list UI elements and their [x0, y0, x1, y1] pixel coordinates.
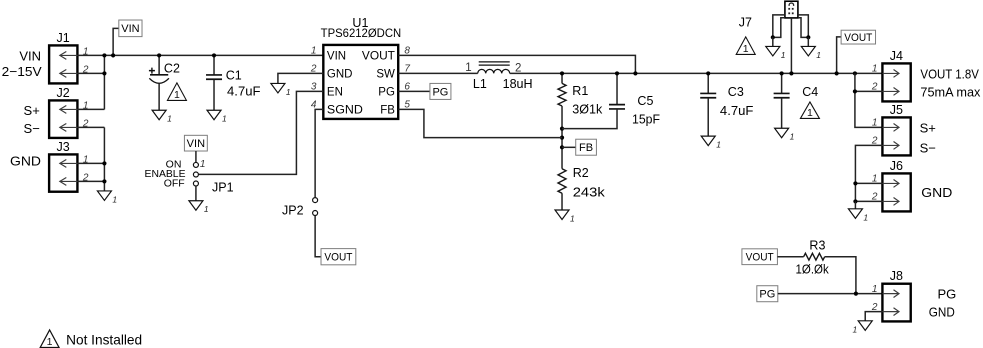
svg-text:243k: 243k	[573, 186, 606, 200]
ground R2	[555, 210, 575, 224]
svg-text:1: 1	[47, 336, 53, 348]
svg-text:1: 1	[112, 194, 117, 204]
wire R1 top lead	[561, 73, 563, 83]
svg-text:VOUT 1.8V: VOUT 1.8V	[920, 67, 979, 81]
ground C4	[775, 128, 795, 142]
junction FB label / FB node	[560, 145, 564, 149]
svg-text:1: 1	[872, 63, 878, 74]
capacitor plates C5	[609, 105, 625, 109]
junction FB wire / FB node	[560, 136, 564, 140]
svg-text:1: 1	[743, 43, 749, 55]
ground input GND bus	[97, 191, 117, 205]
junction VIN bus / rail	[102, 53, 106, 57]
connector J3	[49, 154, 77, 191]
wire J1 pin2 to VIN bus	[77, 72, 104, 74]
wire J7 right inner leg	[798, 18, 808, 38]
svg-text:FB: FB	[579, 142, 593, 154]
svg-text:1: 1	[570, 214, 575, 224]
svg-text:S−: S−	[24, 121, 40, 136]
svg-text:PG: PG	[432, 86, 448, 98]
svg-text:S+: S+	[24, 103, 40, 118]
junction VIN bus / J1 pin2	[102, 71, 106, 75]
wire J7 left outer leg	[773, 15, 785, 37]
junction R1 bottom / C5 bottom	[560, 127, 564, 131]
svg-text:1: 1	[204, 204, 209, 214]
svg-text:C1: C1	[226, 68, 242, 82]
svg-text:L1: L1	[473, 77, 487, 91]
svg-text:1: 1	[852, 324, 857, 334]
wire C3 top lead	[707, 73, 709, 93]
svg-text:VOUT: VOUT	[746, 252, 774, 264]
not-installed flag J7	[736, 37, 755, 55]
wire S- to GND bus	[855, 145, 882, 201]
wire FB node vertical	[561, 106, 563, 169]
junction C1 / VIN rail	[212, 53, 216, 57]
wire SGND to JP2	[315, 109, 323, 197]
ground C1	[207, 110, 227, 124]
svg-text:EN: EN	[327, 86, 343, 98]
svg-text:1: 1	[816, 50, 821, 60]
svg-text:FB: FB	[380, 104, 395, 116]
svg-text:1: 1	[872, 117, 878, 128]
net label VOUT at R3	[742, 249, 778, 265]
jumper JP2	[313, 198, 318, 216]
inductor L1	[478, 62, 510, 74]
wire U1 VOUT pin8 net	[398, 55, 635, 73]
wire U1 GND pin to ground	[278, 73, 323, 83]
wire EN net U1 to JP1	[199, 91, 324, 174]
svg-text:J1: J1	[57, 31, 70, 45]
wire output GND lead	[854, 201, 856, 208]
svg-text:3Ø1k: 3Ø1k	[572, 103, 603, 117]
svg-text:GND: GND	[327, 68, 353, 80]
resistor body R3	[804, 253, 825, 260]
capacitor plates C1	[206, 75, 222, 79]
svg-text:1: 1	[465, 62, 471, 74]
svg-text:GND: GND	[929, 305, 955, 320]
svg-text:JP1: JP1	[212, 180, 234, 194]
resistor body R2	[558, 169, 566, 194]
junction C5 / rail	[615, 71, 619, 75]
op-amp U1 TPS62120DCN body	[323, 45, 398, 119]
junction GND bus / J6 pin1	[853, 181, 857, 185]
not-installed flag C4	[800, 102, 819, 119]
wire VIN label to JP1 pin1	[195, 151, 197, 162]
svg-text:S+: S+	[920, 121, 936, 136]
resistor body R1	[558, 83, 566, 106]
svg-text:VOUT: VOUT	[844, 32, 872, 44]
junction VIN label stub / rail	[111, 53, 115, 57]
wire R2 bottom lead	[561, 193, 563, 210]
svg-text:C3: C3	[728, 85, 744, 99]
wire FB net U1 pin5 to divider	[398, 109, 562, 137]
connector J2	[49, 100, 77, 138]
ground J7 left	[766, 46, 786, 60]
svg-text:1: 1	[286, 87, 291, 97]
wire J7 left ground lead	[772, 37, 774, 46]
junction J7 right legs join	[806, 35, 810, 39]
wire J2 pin1 to VIN bus	[77, 108, 104, 110]
junction C2 / VIN rail	[157, 53, 161, 57]
net label FB	[576, 139, 597, 155]
junction J4 bus / pin2	[853, 89, 857, 93]
svg-text:JP2: JP2	[282, 203, 304, 217]
connector J8	[882, 284, 910, 322]
capacitor C2	[149, 55, 169, 110]
net label VIN top-left	[119, 20, 142, 37]
connector J1	[49, 45, 77, 83]
wire PG stub at U1	[398, 90, 430, 92]
svg-text:J4: J4	[890, 49, 903, 63]
junction C4 / rail	[780, 71, 784, 75]
junction GND bus / J3 pin2	[102, 179, 106, 183]
svg-text:4.7uF: 4.7uF	[720, 104, 754, 118]
ground JP1 OFF	[189, 201, 209, 215]
capacitor plates C3	[700, 93, 716, 97]
wire PG label to J8 pin1	[778, 293, 883, 295]
svg-text:GND: GND	[921, 185, 952, 200]
wire J6 pin2 wire	[855, 200, 882, 202]
junction GND bus / J6 pin2	[853, 199, 857, 203]
ground output GND	[848, 209, 868, 223]
svg-text:1: 1	[174, 89, 180, 101]
svg-text:TPS6212ØDCN: TPS6212ØDCN	[321, 26, 402, 40]
svg-text:1: 1	[311, 45, 317, 56]
svg-text:18uH: 18uH	[503, 77, 533, 91]
wire C4 top lead	[781, 73, 783, 93]
ground J7 right	[801, 46, 821, 60]
svg-text:J2: J2	[57, 86, 70, 100]
connector J4	[882, 63, 910, 101]
svg-text:VIN: VIN	[19, 49, 41, 64]
wire J4 pin2 wire	[855, 90, 883, 92]
svg-text:1: 1	[167, 114, 172, 124]
capacitor plates C4	[774, 93, 790, 97]
connector J6	[882, 173, 910, 211]
svg-text:1: 1	[790, 132, 795, 142]
net label PG at U1	[430, 83, 451, 99]
svg-text:C2: C2	[164, 62, 180, 76]
wire J7 center to rail	[790, 18, 792, 74]
svg-text:C5: C5	[637, 94, 653, 108]
svg-text:1: 1	[807, 107, 813, 119]
wire VOUT label to R3	[777, 256, 803, 258]
junction R1 / rail	[560, 71, 564, 75]
wire J6 pin1 wire	[855, 182, 882, 184]
wire C4 bottom lead	[781, 98, 783, 128]
capacitor C1	[213, 55, 215, 110]
wire FB label stub	[562, 146, 576, 148]
junction J7 left legs join	[771, 35, 775, 39]
junction J7 center / rail	[789, 71, 793, 75]
svg-text:VIN: VIN	[187, 138, 205, 150]
svg-text:1Ø.Øk: 1Ø.Øk	[796, 263, 830, 277]
ground U1 GND pin	[271, 83, 291, 97]
svg-text:R1: R1	[572, 84, 588, 98]
junction J4 bus / rail	[853, 71, 857, 75]
wire VOUT label stub	[837, 37, 842, 74]
net label VIN at JP1	[184, 135, 207, 151]
svg-text:1: 1	[222, 114, 227, 124]
wire JP1 pin3 to ground	[195, 186, 197, 201]
svg-text:J3: J3	[57, 140, 70, 154]
wire R3 to J8 pin1	[825, 257, 856, 294]
svg-text:J7: J7	[739, 16, 752, 30]
svg-text:2: 2	[515, 62, 521, 74]
net label VOUT at JP2	[321, 249, 356, 265]
jumper JP1	[193, 162, 198, 186]
ground C2	[152, 110, 172, 124]
svg-text:2−15V: 2−15V	[2, 64, 42, 79]
wire J4 sense bus	[855, 73, 883, 127]
svg-text:PG: PG	[759, 289, 775, 301]
junction pin8 drop / rail	[633, 71, 637, 75]
svg-text:VOUT: VOUT	[324, 252, 352, 264]
svg-text:VIN: VIN	[327, 50, 346, 62]
svg-text:1: 1	[863, 212, 868, 222]
wire VIN label stub	[113, 28, 119, 55]
svg-text:SGND: SGND	[327, 104, 363, 116]
svg-text:S−: S−	[920, 141, 936, 156]
svg-text:15pF: 15pF	[632, 112, 660, 126]
net label VOUT top-right	[841, 30, 875, 44]
svg-text:GND: GND	[10, 154, 41, 169]
wire J3 pin1 to GND bus	[77, 162, 104, 164]
svg-text:VOUT: VOUT	[362, 50, 395, 62]
wire VIN bus vertical	[103, 55, 105, 109]
connector J7 header body	[785, 1, 798, 18]
svg-text:Not Installed: Not Installed	[66, 332, 142, 348]
connector J5	[882, 117, 910, 155]
wire J7 right outer leg	[798, 15, 808, 37]
svg-text:OFF: OFF	[164, 178, 185, 190]
svg-text:1: 1	[872, 284, 878, 295]
junction C3 / rail	[706, 71, 710, 75]
wire VIN rail J1 to U1	[77, 54, 323, 56]
svg-text:1: 1	[716, 140, 721, 150]
svg-text:R2: R2	[573, 166, 589, 180]
svg-text:J6: J6	[890, 159, 903, 173]
junction R3 / PG wire	[854, 292, 858, 296]
ground C3	[701, 136, 721, 150]
junction VOUT label / rail	[835, 71, 839, 75]
svg-text:75mA max: 75mA max	[920, 86, 981, 100]
svg-text:4.7uF: 4.7uF	[227, 84, 261, 98]
junction GND bus / J3 pin1	[102, 161, 106, 165]
net label PG at J8	[757, 286, 778, 302]
svg-text:SW: SW	[376, 68, 395, 80]
svg-text:R3: R3	[809, 238, 825, 252]
wire J2 pin2 to GND bus	[77, 126, 104, 128]
wire GND bus vertical	[103, 127, 105, 191]
ground J8 pin2	[852, 321, 872, 335]
wire J7 left inner leg	[773, 18, 785, 38]
not-installed flag C2	[167, 83, 186, 101]
wire J8 pin2 to ground	[865, 312, 882, 321]
wire J3 pin2 to GND bus	[77, 180, 104, 182]
wire JP2 to VOUT label	[315, 216, 321, 257]
wire VOUT rail L1 to J4	[510, 72, 883, 74]
svg-text:1: 1	[200, 159, 206, 170]
wire C5 top lead	[616, 73, 618, 104]
note: not installed legend	[40, 330, 142, 348]
svg-text:1: 1	[781, 50, 786, 60]
svg-text:C4: C4	[802, 85, 818, 99]
svg-text:PG: PG	[938, 286, 957, 301]
svg-text:J8: J8	[890, 269, 903, 283]
svg-text:PG: PG	[378, 86, 395, 98]
svg-text:VIN: VIN	[121, 23, 139, 35]
wire SW pin7 to L1	[398, 72, 478, 74]
wire C3 bottom lead	[707, 98, 709, 136]
wire C5 bottom to R1 bottom	[562, 109, 617, 129]
svg-text:J5: J5	[890, 103, 903, 117]
wire J7 right ground lead	[807, 37, 809, 46]
